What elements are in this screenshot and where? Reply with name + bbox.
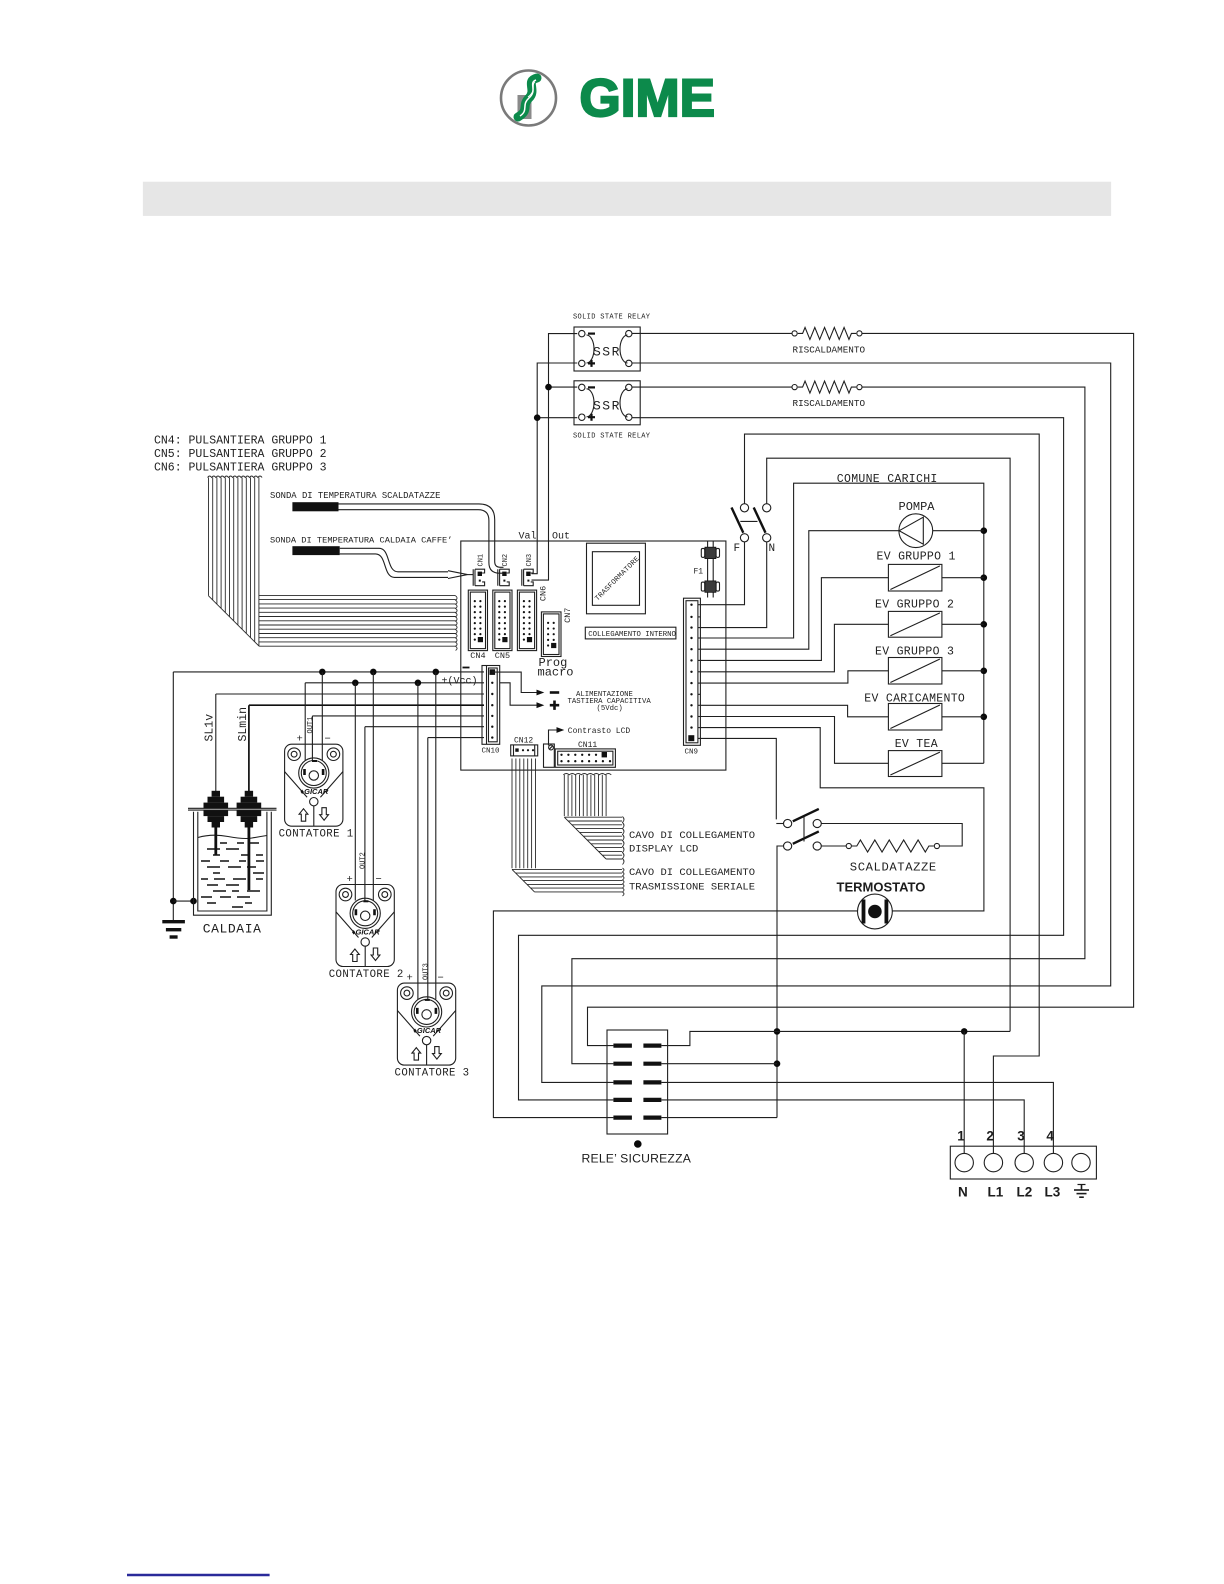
svg-text:TERMOSTATO: TERMOSTATO xyxy=(837,880,926,895)
resistor RISCALDAMENTO 1 heater xyxy=(792,327,862,339)
svg-text:+: + xyxy=(297,734,303,746)
wire SSR2 plus stub xyxy=(537,417,577,419)
wire SSR1 plus AC to safety relay row3 left xyxy=(542,363,1111,1082)
safety relay RELE SICUREZZA box xyxy=(607,1030,668,1134)
svg-text:L3: L3 xyxy=(1045,1185,1061,1200)
wire Vcc minus rail xyxy=(173,671,484,673)
keypad minus symbol xyxy=(550,691,559,694)
svg-text:CN7: CN7 xyxy=(563,608,573,623)
junction SSR minus bus xyxy=(545,384,552,391)
wire SSR2 plus AC to safety relay row4 left xyxy=(519,418,1064,1100)
svg-text:TRASMISSIONE SERIALE: TRASMISSIONE SERIALE xyxy=(629,882,755,894)
svg-text:CN5: PULSANTIERA GRUPPO 2: CN5: PULSANTIERA GRUPPO 2 xyxy=(154,448,327,461)
relay contact row 1 xyxy=(613,1043,661,1047)
wire heater2 return to safety relay row2 left xyxy=(572,387,1085,1064)
boiler CALDAIA vessel xyxy=(188,808,277,915)
connector CN6 xyxy=(517,590,536,651)
probe cable to CN1 xyxy=(340,548,473,578)
solid state relay SSR2 xyxy=(574,381,640,425)
wire switch to bus stub xyxy=(776,823,783,825)
wire contatore3 minus drop xyxy=(435,672,437,999)
connector CN9 xyxy=(684,598,701,745)
junction SSR plus bus xyxy=(534,414,541,421)
svg-text:Out: Out xyxy=(552,532,570,543)
wire contatore2 plus drop xyxy=(354,683,356,901)
wire scaldatazze return bus down to relay row5 xyxy=(777,846,784,1118)
wire relay row3 right to terminal 4 xyxy=(661,1082,1053,1153)
svg-text:CN5: CN5 xyxy=(495,651,510,661)
svg-text:CN4: PULSANTIERA GRUPPO 1: CN4: PULSANTIERA GRUPPO 1 xyxy=(154,435,327,448)
connector CN2 xyxy=(498,569,509,586)
wire F top to terminal 2 xyxy=(745,434,1040,1154)
solenoid valve EV CARICAMENTO xyxy=(888,704,942,731)
fuse F1 xyxy=(701,541,719,598)
svg-text:SLmin: SLmin xyxy=(237,707,250,742)
svg-text:Contrasto LCD: Contrasto LCD xyxy=(568,727,631,736)
svg-text:SONDA DI TEMPERATURA CALDAIA C: SONDA DI TEMPERATURA CALDAIA CAFFE’ xyxy=(270,536,452,546)
flow meter CONTATORE 3 xyxy=(397,983,455,1065)
junction bus EV caricamento xyxy=(981,714,988,721)
relay coil dot xyxy=(634,1140,642,1148)
junction bus EV gruppo1 xyxy=(981,574,988,581)
wire contrast arrow xyxy=(549,730,557,746)
junction bus pompa xyxy=(981,527,988,534)
relay contact row 2 xyxy=(613,1062,661,1066)
solid state relay SSR1 xyxy=(574,327,640,371)
svg-text:L2: L2 xyxy=(1017,1185,1033,1200)
svg-text:♦GICAR: ♦GICAR xyxy=(300,787,329,796)
resistor SCALDATAZZE cup-warmer heater xyxy=(846,840,939,852)
svg-text:F1: F1 xyxy=(694,568,704,577)
earth symbol at terminal block xyxy=(1074,1185,1089,1198)
wire earth to boiler shell xyxy=(173,900,193,902)
wire CN9 pin6 to EV gruppo1 xyxy=(700,578,888,661)
wire relay row2 right to return bus xyxy=(661,1063,777,1065)
junction minus contatore1 xyxy=(319,669,326,676)
wire OUT2 contatore2 xyxy=(365,727,484,901)
svg-text:SL1v: SL1v xyxy=(204,714,217,742)
svg-text:EV TEA: EV TEA xyxy=(895,738,938,751)
wire SSR1 minus to CN3 pin2 xyxy=(532,334,578,580)
wire CN9 pin5 to pompa xyxy=(700,531,899,650)
svg-text:CN2: CN2 xyxy=(502,554,510,567)
wire pompa to common bus xyxy=(933,530,984,532)
scaldatazze switch contacts xyxy=(784,809,822,850)
wire N bottom to CN9 pin3 xyxy=(700,542,766,628)
svg-text:GIME: GIME xyxy=(580,69,715,128)
wire relay row4 right to terminal 3 xyxy=(661,1100,1024,1154)
svg-text:TRASFORMATORE: TRASFORMATORE xyxy=(594,555,642,603)
svg-text:CAVO DI COLLEGAMENTO: CAVO DI COLLEGAMENTO xyxy=(629,830,755,842)
connector CN10 xyxy=(482,666,500,745)
connector CN3 xyxy=(522,569,533,586)
svg-text:−: − xyxy=(376,874,382,886)
wire SSR2 minus stub xyxy=(549,386,578,388)
svg-text:3: 3 xyxy=(1017,1129,1025,1144)
wire contatore1 minus drop xyxy=(321,672,323,761)
main control board outline xyxy=(461,541,726,770)
svg-text:CAVO DI COLLEGAMENTO: CAVO DI COLLEGAMENTO xyxy=(629,867,755,879)
mains terminal block xyxy=(950,1146,1096,1179)
svg-text:L1: L1 xyxy=(988,1185,1004,1200)
boiler level electrode at x=215.8 xyxy=(204,791,229,855)
wire N top to node line xyxy=(767,458,1010,1031)
connector CN7 xyxy=(541,612,561,657)
svg-text:CN4: CN4 xyxy=(470,651,485,661)
resistor RISCALDAMENTO 2 heater xyxy=(792,381,862,393)
svg-text:OUT1: OUT1 xyxy=(307,717,315,734)
wire OUT3 contatore3 xyxy=(428,738,484,1000)
wire CN9 pin10 to EV caricamento xyxy=(700,705,888,717)
temperature probe scaldatazze xyxy=(292,502,338,511)
svg-text:Val: Val xyxy=(519,531,537,543)
boiler water dashes xyxy=(201,843,264,907)
wire EV gruppo3 to bus xyxy=(942,670,984,672)
wire SSR2 out to heater 2 xyxy=(632,386,792,388)
wire termostato left to safety relay row5 left xyxy=(493,911,857,1118)
wire CN9 pin7 to EV gruppo2 xyxy=(700,624,888,672)
svg-text:♦GICAR: ♦GICAR xyxy=(352,928,381,937)
connector CN4 xyxy=(468,590,487,651)
svg-text:CONTATORE 3: CONTATORE 3 xyxy=(395,1068,470,1080)
solenoid valve EV GRUPPO 3 xyxy=(888,658,942,685)
relay contact row 4 xyxy=(613,1098,661,1102)
wire CN9 pin12 to termostato right xyxy=(700,728,984,911)
solenoid valve EV GRUPPO 2 xyxy=(888,611,942,637)
LCD display ribbon cable xyxy=(564,775,622,859)
wire CN9 pin8 to EV gruppo3 xyxy=(700,671,888,683)
svg-text:CN6: CN6 xyxy=(539,586,549,601)
wire EV tea to bus end xyxy=(942,762,984,764)
keypad plus symbol xyxy=(550,701,559,710)
svg-text:EV CARICAMENTO: EV CARICAMENTO xyxy=(864,693,965,706)
wire CN10 pin1 to keypad minus arrow xyxy=(492,672,537,692)
junction bus EV gruppo2 xyxy=(981,621,988,628)
svg-text:CONTATORE 1: CONTATORE 1 xyxy=(279,829,354,841)
junction earth caldaia xyxy=(170,898,177,905)
wire CN9 pin11 to EV tea xyxy=(700,717,888,764)
junction bus EV gruppo3 xyxy=(981,668,988,675)
svg-text:SCALDATAZZE: SCALDATAZZE xyxy=(850,861,937,875)
junction return bus row1 xyxy=(774,1028,781,1035)
footer blue rule xyxy=(127,1574,270,1576)
transformer TRASFORMATORE xyxy=(587,543,646,614)
svg-text:N: N xyxy=(769,543,776,555)
connector CN1 xyxy=(473,569,484,586)
svg-text:CN9: CN9 xyxy=(685,749,699,757)
svg-text:EV GRUPPO 3: EV GRUPPO 3 xyxy=(875,646,954,659)
wire OUT1 contatore1 xyxy=(312,716,484,761)
flow meter CONTATORE 1 xyxy=(285,744,343,826)
junction minus contatore2 xyxy=(370,669,377,676)
svg-text:+: + xyxy=(347,874,353,886)
svg-text:CALDAIA: CALDAIA xyxy=(203,922,262,937)
junction boiler shell xyxy=(190,898,197,905)
ribbon end waves top xyxy=(208,476,263,478)
svg-text:CN3: CN3 xyxy=(526,554,534,567)
grey title bar xyxy=(143,182,1111,216)
svg-text:−: − xyxy=(325,734,331,746)
serial ribbon cable from CN12 xyxy=(512,759,622,892)
svg-text:CONTATORE 2: CONTATORE 2 xyxy=(329,969,404,981)
earth ground symbol xyxy=(162,922,185,937)
junction minus contatore3 xyxy=(433,669,440,676)
svg-text:COLLEGAMENTO INTERNO: COLLEGAMENTO INTERNO xyxy=(588,631,676,639)
wire CN10 pin2 to keypad plus arrow xyxy=(500,683,537,705)
ribbon end waves right xyxy=(456,596,458,651)
wire switch to scaldatazze heater right xyxy=(821,824,962,847)
wire contatore2 minus drop xyxy=(372,672,374,901)
svg-text:POMPA: POMPA xyxy=(899,500,936,514)
svg-text:CN12: CN12 xyxy=(514,737,533,746)
main switch F/N xyxy=(732,504,771,542)
svg-text:RISCALDAMENTO: RISCALDAMENTO xyxy=(793,345,866,356)
svg-text:+: + xyxy=(407,973,413,985)
thermostat symbol xyxy=(858,894,893,929)
svg-text:EV GRUPPO 1: EV GRUPPO 1 xyxy=(877,551,956,564)
temperature probe caldaia xyxy=(292,546,339,555)
relay contact row 3 xyxy=(613,1080,661,1084)
wire switch to scaldatazze heater left xyxy=(821,845,846,847)
svg-text:EV GRUPPO 2: EV GRUPPO 2 xyxy=(875,599,954,612)
wire relay row1 right to N node xyxy=(661,1031,1010,1045)
wire Vcc plus rail xyxy=(305,682,484,684)
svg-text:CN11: CN11 xyxy=(578,741,597,750)
svg-text:♦GICAR: ♦GICAR xyxy=(413,1026,442,1035)
wire relay row5 right to return bus xyxy=(661,1117,777,1119)
svg-text:CN1: CN1 xyxy=(477,554,485,567)
wire CN9 pin4 common loads bus xyxy=(700,483,983,763)
connector CN11 xyxy=(555,749,615,767)
label minus Vcc xyxy=(463,667,470,669)
svg-text:(5Vdc): (5Vdc) xyxy=(597,705,623,713)
svg-text:4: 4 xyxy=(1046,1129,1054,1144)
svg-text:1: 1 xyxy=(957,1129,965,1144)
svg-text:−: − xyxy=(438,973,444,985)
boiler water level wavy line xyxy=(198,835,267,838)
solenoid valve EV GRUPPO 1 xyxy=(888,564,942,591)
svg-text:CN10: CN10 xyxy=(482,748,501,756)
svg-text:OUT2: OUT2 xyxy=(360,852,368,869)
wire SLmin level probe xyxy=(249,705,484,791)
svg-text:2: 2 xyxy=(986,1129,994,1144)
solenoid valve EV TEA xyxy=(888,751,942,777)
wire EV gruppo1 to bus xyxy=(942,577,984,579)
svg-text:N: N xyxy=(958,1185,968,1200)
wire node to terminal 1 xyxy=(963,1031,965,1153)
junction plus contatore3 xyxy=(415,680,422,687)
wire contatore3 plus drop xyxy=(417,683,419,1000)
wire minus rail to earth xyxy=(172,672,174,920)
svg-text:OUT3: OUT3 xyxy=(422,963,430,980)
wire EV caricamento to bus xyxy=(942,716,984,718)
relay contact row 5 xyxy=(613,1115,661,1119)
svg-text:SOLID STATE RELAY: SOLID STATE RELAY xyxy=(573,433,651,441)
contrast trimmer xyxy=(544,744,555,767)
pump POMPA symbol xyxy=(899,514,933,548)
wire heater1 return to safety relay row1 left xyxy=(588,333,1134,1045)
junction terminal1 branch xyxy=(961,1028,968,1035)
svg-text:SOLID STATE RELAY: SOLID STATE RELAY xyxy=(573,314,651,322)
boiler level electrode at x=248.9 xyxy=(237,791,262,890)
svg-text:CN6: PULSANTIERA GRUPPO 3: CN6: PULSANTIERA GRUPPO 3 xyxy=(154,462,327,475)
probe cable to CN2 xyxy=(339,504,504,573)
wire contatore1 plus drop xyxy=(304,683,306,761)
wire SL1v level probe xyxy=(216,694,484,791)
svg-text:RISCALDAMENTO: RISCALDAMENTO xyxy=(793,398,866,409)
connector CN12 xyxy=(511,745,538,756)
wire SSR1 out to heater 1 xyxy=(632,332,792,334)
junction plus contatore2 xyxy=(352,680,359,687)
svg-text:SSR: SSR xyxy=(593,398,621,413)
wire F bottom to CN9 pin1 xyxy=(700,542,744,605)
keypad ribbon cable (pulsantiera) xyxy=(209,478,456,647)
svg-text:COMUNE CARICHI: COMUNE CARICHI xyxy=(837,473,938,486)
wire CN9 pin13 to scaldatazze switch xyxy=(700,738,776,819)
wire SSR1 plus to CN3 pin1 xyxy=(532,363,578,574)
svg-text:+(Vcc): +(Vcc) xyxy=(442,675,478,687)
internal link box COLLEGAMENTO INTERNO xyxy=(585,627,676,639)
GIME logo circle emblem xyxy=(501,71,556,126)
junction return bus row2 xyxy=(774,1060,781,1067)
wire EV gruppo2 to bus xyxy=(942,623,984,625)
svg-text:F: F xyxy=(734,543,741,555)
svg-text:SSR: SSR xyxy=(593,345,621,360)
svg-text:SONDA DI TEMPERATURA SCALDATAZ: SONDA DI TEMPERATURA SCALDATAZZE xyxy=(270,491,440,501)
flow meter CONTATORE 2 xyxy=(336,885,394,967)
connector CN5 xyxy=(493,590,512,651)
svg-text:DISPLAY LCD: DISPLAY LCD xyxy=(629,844,698,856)
svg-text:RELE’ SICUREZZA: RELE’ SICUREZZA xyxy=(582,1152,692,1166)
svg-text:macro: macro xyxy=(538,666,574,680)
